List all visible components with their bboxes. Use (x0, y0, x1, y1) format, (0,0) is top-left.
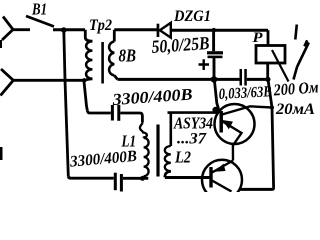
svg-text:P: P (253, 30, 264, 46)
svg-text:L2: L2 (174, 148, 191, 167)
svg-text:Tp2: Tp2 (89, 17, 112, 34)
svg-text:DZG1: DZG1 (173, 8, 211, 25)
svg-text:B1: B1 (31, 0, 47, 19)
svg-text:20мA: 20мA (275, 101, 315, 118)
svg-text:0,033/63B: 0,033/63B (218, 83, 272, 103)
svg-text:200 Oм: 200 Oм (272, 77, 319, 99)
svg-text:8B: 8B (119, 46, 137, 66)
svg-text:50,0/25B: 50,0/25B (151, 34, 210, 58)
svg-text:...37: ...37 (177, 131, 207, 148)
